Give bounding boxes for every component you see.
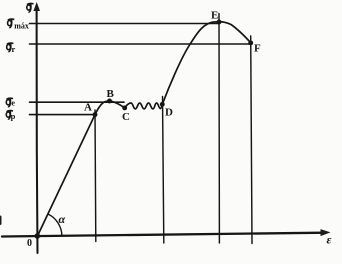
svg-text:F: F bbox=[254, 43, 261, 55]
point A dot bbox=[93, 112, 98, 117]
point E dot bbox=[217, 20, 222, 25]
point D dot bbox=[160, 102, 165, 107]
scan edge artifact bbox=[0, 216, 2, 226]
svg-text:0: 0 bbox=[27, 238, 32, 249]
sigma p reference line bbox=[30, 114, 96, 116]
sigma r label bbox=[7, 43, 16, 54]
sigma e label bbox=[6, 97, 15, 107]
svg-text:ε: ε bbox=[327, 233, 332, 247]
svg-text:e: e bbox=[11, 97, 15, 107]
svg-text:máx: máx bbox=[14, 22, 29, 31]
vertical dropline from E bbox=[218, 14, 220, 244]
sigma max label bbox=[8, 19, 29, 31]
point B dot bbox=[107, 99, 112, 104]
x axis arrowhead bbox=[321, 229, 331, 236]
vertical dropline from A bbox=[94, 110, 97, 242]
svg-text:p: p bbox=[11, 111, 16, 121]
svg-text:r: r bbox=[12, 44, 16, 54]
svg-text:C: C bbox=[122, 111, 130, 123]
elastic straight segment O through A bending to B bbox=[37, 101, 109, 236]
vertical dropline from D bbox=[163, 97, 164, 244]
plateau squiggle C to D bbox=[125, 103, 163, 109]
svg-text:A: A bbox=[84, 102, 92, 114]
y axis sigma bbox=[36, 6, 39, 253]
sigma e reference line bbox=[30, 101, 125, 103]
sigma axis label bbox=[27, 3, 34, 12]
y axis arrowhead bbox=[33, 2, 40, 11]
angle arc alpha bbox=[48, 214, 62, 236]
sigma p label bbox=[6, 111, 15, 121]
x axis epsilon bbox=[2, 233, 325, 237]
svg-text:B: B bbox=[107, 88, 115, 100]
point O dot bbox=[35, 233, 41, 239]
point F dot bbox=[248, 40, 253, 45]
vertical dropline from F bbox=[251, 36, 252, 244]
point C dot bbox=[122, 105, 127, 110]
hardening curve D to E and necking to F bbox=[162, 22, 250, 105]
svg-text:D: D bbox=[165, 107, 173, 119]
sigma max reference line bbox=[30, 23, 219, 25]
yield dip B to C bbox=[110, 101, 125, 108]
svg-text:α: α bbox=[59, 212, 66, 226]
sigma r reference line bbox=[30, 43, 251, 45]
svg-text:E: E bbox=[211, 10, 218, 22]
